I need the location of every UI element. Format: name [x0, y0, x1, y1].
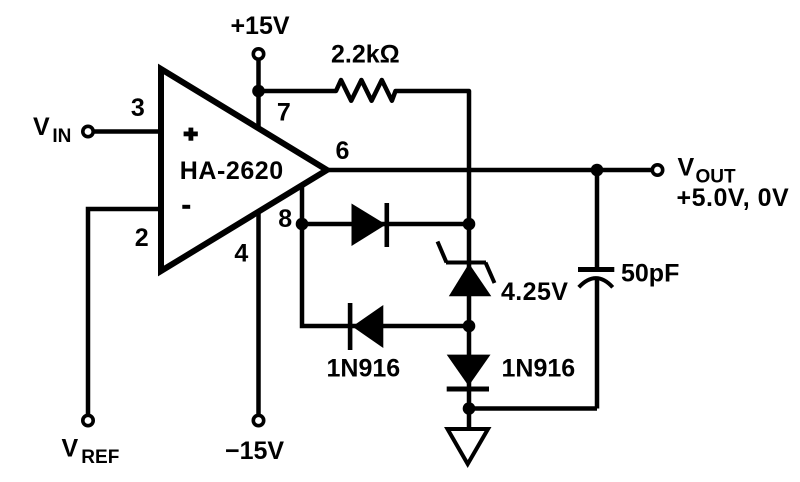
svg-text:OUT: OUT [696, 167, 737, 188]
svg-text:50pF: 50pF [621, 260, 679, 288]
svg-text:8: 8 [278, 205, 292, 233]
svg-text:REF: REF [81, 447, 119, 468]
svg-text:HA-2620: HA-2620 [180, 157, 284, 185]
svg-text:1N916: 1N916 [502, 355, 576, 383]
svg-text:2: 2 [135, 224, 149, 252]
svg-text:+5.0V, 0V: +5.0V, 0V [677, 184, 790, 212]
svg-text:V: V [33, 113, 50, 141]
svg-text:−15V: −15V [225, 437, 284, 465]
svg-text:IN: IN [52, 126, 71, 147]
svg-text:7: 7 [277, 99, 291, 127]
svg-text:2.2kΩ: 2.2kΩ [331, 41, 400, 69]
svg-text:+15V: +15V [230, 12, 289, 40]
svg-text:1N916: 1N916 [327, 355, 401, 383]
svg-text:V: V [678, 153, 695, 181]
svg-text:3: 3 [131, 94, 145, 122]
svg-text:4: 4 [234, 239, 248, 267]
svg-text:V: V [62, 435, 79, 463]
svg-text:6: 6 [336, 137, 350, 165]
svg-text:4.25V: 4.25V [501, 278, 568, 306]
